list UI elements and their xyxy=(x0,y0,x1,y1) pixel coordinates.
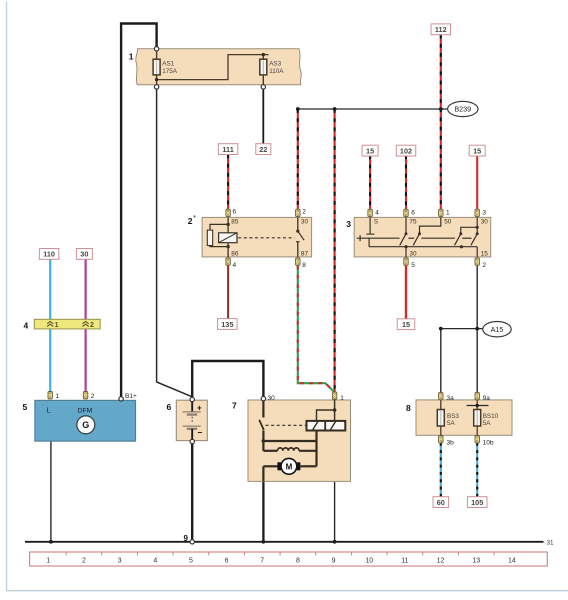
svg-text:22: 22 xyxy=(259,145,267,154)
svg-text:1: 1 xyxy=(340,395,344,402)
svg-text:31: 31 xyxy=(547,539,555,546)
svg-text:11: 11 xyxy=(401,557,408,564)
svg-text:1: 1 xyxy=(46,557,50,564)
svg-text:−: − xyxy=(198,428,203,438)
svg-text:3b: 3b xyxy=(447,440,455,447)
svg-text:12: 12 xyxy=(437,557,445,564)
svg-text:7: 7 xyxy=(260,557,264,564)
svg-text:9a: 9a xyxy=(483,395,491,402)
svg-text:*: * xyxy=(193,215,196,222)
svg-text:30: 30 xyxy=(481,219,489,226)
svg-text:3: 3 xyxy=(118,557,122,564)
svg-text:15: 15 xyxy=(481,251,489,258)
svg-text:15: 15 xyxy=(366,146,374,155)
svg-text:B239: B239 xyxy=(454,105,471,114)
svg-text:2: 2 xyxy=(188,216,193,226)
svg-text:8: 8 xyxy=(406,403,411,413)
svg-text:9: 9 xyxy=(332,557,336,564)
svg-text:5A: 5A xyxy=(483,420,492,427)
svg-text:30: 30 xyxy=(409,251,417,258)
svg-text:2: 2 xyxy=(90,322,94,329)
svg-text:6: 6 xyxy=(167,402,172,412)
svg-text:50: 50 xyxy=(444,219,452,226)
svg-text:175A: 175A xyxy=(162,68,178,75)
svg-text:S: S xyxy=(374,219,378,226)
svg-text:4: 4 xyxy=(153,557,157,564)
svg-text:G: G xyxy=(82,420,89,430)
svg-text:30: 30 xyxy=(268,395,276,402)
svg-text:BS10: BS10 xyxy=(483,413,499,420)
svg-text:5: 5 xyxy=(411,262,415,269)
svg-text:5: 5 xyxy=(23,402,28,412)
svg-text:DFM: DFM xyxy=(78,407,93,414)
svg-text:102: 102 xyxy=(400,146,412,155)
svg-text:1: 1 xyxy=(55,322,59,329)
svg-text:14: 14 xyxy=(508,557,516,564)
svg-text:2: 2 xyxy=(482,262,486,269)
svg-text:2: 2 xyxy=(82,557,86,564)
svg-text:3: 3 xyxy=(482,210,486,217)
svg-text:M: M xyxy=(286,462,293,471)
svg-text:5A: 5A xyxy=(447,420,456,427)
svg-text:75: 75 xyxy=(409,219,417,226)
svg-text:8: 8 xyxy=(302,262,306,269)
svg-text:110A: 110A xyxy=(269,68,284,75)
svg-text:7: 7 xyxy=(232,401,237,411)
svg-text:15: 15 xyxy=(402,320,410,329)
svg-text:6: 6 xyxy=(233,209,237,216)
svg-text:6: 6 xyxy=(225,557,229,564)
svg-text:112: 112 xyxy=(435,25,447,34)
svg-text:111: 111 xyxy=(222,145,233,154)
svg-text:8: 8 xyxy=(296,557,300,564)
svg-text:30: 30 xyxy=(80,250,88,259)
svg-text:AS1: AS1 xyxy=(162,61,174,68)
svg-text:110: 110 xyxy=(43,250,55,259)
svg-text:2: 2 xyxy=(91,393,95,400)
svg-text:+: + xyxy=(197,402,202,412)
svg-text:13: 13 xyxy=(472,557,480,564)
svg-text:3a: 3a xyxy=(447,395,455,402)
svg-text:30: 30 xyxy=(301,218,309,225)
svg-text:10b: 10b xyxy=(483,440,494,447)
svg-text:2: 2 xyxy=(302,209,306,216)
svg-text:87: 87 xyxy=(301,250,309,257)
svg-text:4: 4 xyxy=(24,320,29,330)
svg-text:1: 1 xyxy=(129,51,134,61)
svg-text:B1+: B1+ xyxy=(125,393,137,400)
svg-text:BS3: BS3 xyxy=(447,413,459,420)
svg-text:1: 1 xyxy=(55,393,59,400)
svg-text:5: 5 xyxy=(189,557,193,564)
svg-text:105: 105 xyxy=(471,498,483,507)
svg-text:3: 3 xyxy=(346,219,351,229)
svg-text:L: L xyxy=(47,407,51,414)
svg-text:6: 6 xyxy=(411,210,415,217)
svg-text:60: 60 xyxy=(437,498,445,507)
svg-text:9: 9 xyxy=(184,534,189,543)
svg-text:4: 4 xyxy=(375,210,379,217)
svg-text:AS3: AS3 xyxy=(269,61,281,68)
svg-text:1: 1 xyxy=(446,210,450,217)
svg-text:86: 86 xyxy=(231,250,239,257)
svg-text:4: 4 xyxy=(233,262,237,269)
svg-text:135: 135 xyxy=(221,320,233,329)
svg-text:A15: A15 xyxy=(491,325,504,334)
svg-text:15: 15 xyxy=(473,146,481,155)
svg-text:10: 10 xyxy=(365,557,373,564)
svg-text:85: 85 xyxy=(231,218,239,225)
